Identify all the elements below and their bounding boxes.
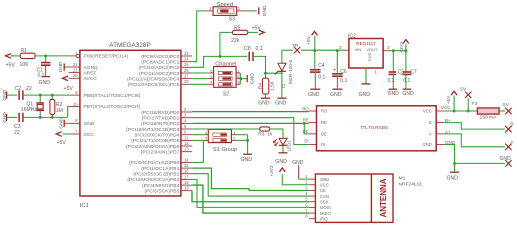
svg-text:C2: C2: [15, 86, 22, 92]
svg-text:(PCI8/ADC0)PC0: (PCI8/ADC0)PC0: [141, 54, 179, 60]
svg-text:GND: GND: [367, 52, 372, 61]
svg-text:GND: GND: [84, 121, 95, 127]
svg-text:150 mA: 150 mA: [480, 115, 498, 121]
svg-text:GND: GND: [359, 92, 371, 98]
svg-text:(PCI17/TXD)PD1: (PCI17/TXD)PD1: [142, 116, 180, 122]
svg-text:CE: CE: [320, 188, 326, 193]
svg-text:C8: C8: [244, 46, 251, 52]
svg-text:S1 Group: S1 Group: [213, 147, 237, 153]
svg-text:1M: 1M: [56, 108, 63, 114]
svg-text:GND: GND: [292, 160, 304, 166]
svg-text:(PCI4/MISO)PB4: (PCI4/MISO)PB4: [142, 183, 180, 189]
svg-text:ATMEGA328P: ATMEGA328P: [109, 42, 150, 49]
svg-text:12: 12: [184, 141, 189, 146]
svg-text:(PCI9/ADC1)PC1: (PCI9/ADC1)PC1: [141, 60, 179, 66]
svg-text:MOSI: MOSI: [320, 205, 331, 210]
svg-text:B: B: [429, 120, 432, 125]
svg-text:GND: GND: [403, 91, 415, 97]
svg-text:GND: GND: [500, 156, 512, 162]
svg-text:MISO: MISO: [320, 211, 331, 216]
svg-text:GND: GND: [2, 89, 8, 100]
svg-text:SCK: SCK: [320, 199, 329, 204]
svg-text:C7: C7: [410, 69, 417, 75]
svg-text:(PCI18/INT0)PD2: (PCI18/INT0)PD2: [141, 121, 180, 127]
svg-text:22: 22: [14, 130, 20, 136]
svg-text:GND: GND: [258, 101, 270, 107]
svg-text:(PCI12/ADC4/SDA)PC4: (PCI12/ADC4/SDA)PC4: [127, 76, 179, 82]
svg-text:C4: C4: [318, 63, 325, 69]
svg-text:1,5K: 1,5K: [269, 80, 275, 91]
svg-text:GND: GND: [275, 101, 287, 107]
svg-text:(PCI1/OC1A)PB1: (PCI1/OC1A)PB1: [141, 166, 179, 172]
svg-text:18: 18: [184, 180, 189, 185]
svg-text:23: 23: [184, 51, 189, 56]
svg-text:R3: R3: [258, 131, 264, 137]
svg-text:DI: DI: [304, 139, 308, 144]
svg-text:MCR-100-6: MCR-100-6: [288, 59, 293, 84]
svg-text:(PCI22/AIN0/OC0A)PD6: (PCI22/AIN0/OC0A)PD6: [126, 144, 180, 150]
svg-text:+5V: +5V: [64, 86, 74, 92]
svg-text:(PCI16/RXD)PD0: (PCI16/RXD)PD0: [141, 110, 179, 116]
svg-text:0,1: 0,1: [403, 78, 410, 84]
svg-text:+5V: +5V: [57, 140, 67, 146]
svg-text:17: 17: [184, 174, 189, 179]
svg-text:10K: 10K: [20, 62, 30, 68]
svg-text:11: 11: [184, 135, 189, 140]
svg-text:GND: GND: [241, 157, 253, 163]
svg-text:5V: 5V: [503, 102, 510, 108]
svg-text:M1: M1: [399, 175, 406, 181]
svg-text:(PCI3/MOSI/OC2A)PB3: (PCI3/MOSI/OC2A)PB3: [127, 177, 179, 183]
svg-text:(PCI2/SS/OC1B)PB2: (PCI2/SS/OC1B)PB2: [133, 172, 179, 178]
svg-text:AVCC: AVCC: [84, 76, 98, 82]
svg-text:Speed: Speed: [217, 2, 233, 8]
svg-text:14: 14: [184, 157, 189, 162]
svg-text:+3V3: +3V3: [399, 42, 404, 53]
svg-text:GND: GND: [2, 112, 8, 123]
svg-text:RO: RO: [302, 106, 309, 111]
svg-text:DI: DI: [321, 142, 325, 147]
svg-text:VOUT: VOUT: [366, 47, 378, 52]
svg-text:22: 22: [26, 86, 32, 92]
svg-text:RE: RE: [303, 118, 309, 123]
svg-text:19: 19: [184, 186, 189, 191]
svg-text:27: 27: [184, 74, 189, 79]
svg-text:(PCI5/SCK)PB5: (PCI5/SCK)PB5: [145, 189, 180, 195]
svg-text:A: A: [429, 131, 432, 136]
svg-text:IRQ: IRQ: [320, 216, 328, 221]
svg-text:PB7(XTAL2/TOSC2/PCI7): PB7(XTAL2/TOSC2/PCI7): [84, 104, 141, 110]
svg-text:T1: T1: [281, 83, 287, 89]
svg-text:(PCI20/XCK/T0)PD4: (PCI20/XCK/T0)PD4: [134, 133, 179, 139]
svg-text:VCC: VCC: [423, 109, 432, 114]
svg-text:16MHz: 16MHz: [21, 107, 37, 113]
svg-text:R1: R1: [21, 48, 28, 54]
svg-text:R4: R4: [258, 83, 264, 89]
svg-text:GND: GND: [320, 177, 329, 182]
svg-text:P06(/RESET/PCI14): P06(/RESET/PCI14): [84, 54, 129, 60]
svg-text:GND: GND: [388, 91, 400, 97]
svg-text:+5V: +5V: [6, 63, 16, 69]
svg-text:10: 10: [73, 101, 78, 106]
svg-text:GND: GND: [275, 159, 287, 165]
svg-text:R5: R5: [234, 26, 241, 32]
svg-text:DE: DE: [321, 131, 327, 136]
svg-text:C6: C6: [340, 69, 347, 75]
svg-text:+5V: +5V: [252, 25, 262, 31]
svg-text:VCC: VCC: [320, 182, 329, 187]
svg-text:ANTENNA: ANTENNA: [379, 178, 388, 217]
svg-text:GND: GND: [58, 117, 64, 128]
svg-text:TR: TR: [292, 43, 299, 49]
svg-text:5V: 5V: [460, 87, 467, 93]
svg-text:F3: F3: [472, 101, 478, 107]
svg-text:20: 20: [73, 73, 78, 78]
svg-text:DE: DE: [303, 129, 309, 134]
svg-text:NRF24L01: NRF24L01: [399, 181, 423, 187]
svg-text:Channel: Channel: [215, 61, 236, 67]
svg-text:21: 21: [73, 68, 78, 73]
svg-text:AREF: AREF: [84, 70, 97, 76]
svg-text:25: 25: [184, 62, 189, 67]
svg-text:0,1: 0,1: [340, 78, 347, 84]
svg-text:28: 28: [184, 79, 189, 84]
svg-text:15: 15: [184, 163, 189, 168]
svg-text:GND: GND: [249, 73, 255, 84]
svg-text:TTL TO RS485: TTL TO RS485: [360, 125, 388, 130]
svg-text:24: 24: [184, 57, 189, 62]
svg-text:B: B: [510, 122, 513, 128]
svg-text:CSN: CSN: [320, 194, 329, 199]
svg-text:0,1: 0,1: [318, 74, 325, 80]
svg-text:+5V: +5V: [446, 95, 451, 104]
svg-text:VIN: VIN: [355, 47, 362, 52]
svg-text:0,1: 0,1: [388, 78, 395, 84]
svg-text:26: 26: [184, 68, 189, 73]
svg-text:S2: S2: [223, 92, 229, 98]
svg-text:1k: 1k: [267, 131, 273, 137]
svg-text:LED1: LED1: [287, 140, 292, 151]
svg-text:AGND: AGND: [84, 65, 99, 71]
svg-text:S3: S3: [229, 16, 235, 22]
svg-text:RE: RE: [321, 120, 327, 125]
svg-text:(PCI21/T1/OC0B)PD5: (PCI21/T1/OC0B)PD5: [131, 138, 179, 144]
svg-text:+5V: +5V: [306, 35, 312, 44]
svg-text:GND: GND: [39, 80, 51, 86]
svg-text:(PCI10/ADC2)PC2: (PCI10/ADC2)PC2: [139, 65, 180, 71]
svg-text:VCC: VCC: [84, 132, 95, 138]
svg-text:GND: GND: [330, 92, 342, 98]
svg-text:VCC: VCC: [441, 105, 451, 110]
svg-text:RO: RO: [321, 109, 328, 114]
svg-text:GND: GND: [308, 92, 320, 98]
svg-text:(PCI13/ADC5/SCL)PC5: (PCI13/ADC5/SCL)PC5: [128, 82, 180, 88]
svg-text:PB6(XTAL1/TOSC1/PCI6): PB6(XTAL1/TOSC1/PCI6): [84, 93, 141, 99]
svg-text:IC1: IC1: [80, 203, 89, 209]
svg-text:(PCI0/ICP1/CLKO)PB0: (PCI0/ICP1/CLKO)PB0: [129, 160, 180, 166]
svg-text:16: 16: [184, 169, 189, 174]
svg-text:(PCI23/AIN1)PD7: (PCI23/AIN1)PD7: [141, 150, 180, 156]
svg-text:(PCI19/INT1/OC2B)PD3: (PCI19/INT1/OC2B)PD3: [126, 127, 179, 133]
svg-text:22k: 22k: [231, 38, 240, 44]
svg-text:(PCI11/ADC3)PC3: (PCI11/ADC3)PC3: [139, 71, 180, 77]
svg-text:0,1: 0,1: [256, 46, 263, 52]
svg-text:22: 22: [73, 62, 78, 67]
svg-text:GND: GND: [58, 61, 64, 72]
svg-text:+3V3: +3V3: [269, 165, 274, 176]
svg-text:GND: GND: [422, 142, 431, 147]
svg-text:GND: GND: [262, 5, 268, 16]
svg-text:GND: GND: [447, 176, 459, 182]
svg-text:0.1: 0.1: [38, 73, 45, 79]
svg-text:IC2: IC2: [348, 33, 356, 39]
svg-text:13: 13: [184, 147, 189, 152]
svg-text:REG1117: REG1117: [356, 41, 376, 46]
svg-text:+: +: [333, 68, 336, 74]
